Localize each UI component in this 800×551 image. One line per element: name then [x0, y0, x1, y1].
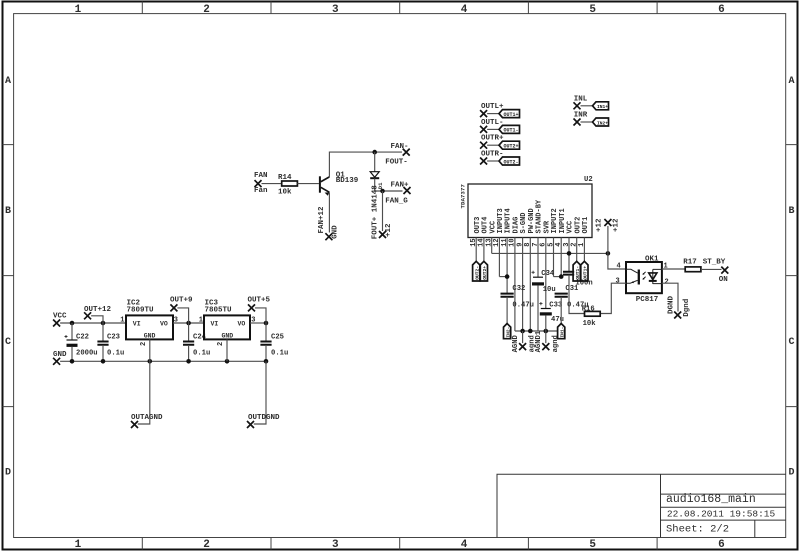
svg-text:IN1+: IN1+ — [597, 104, 608, 110]
svg-text:0.1u: 0.1u — [193, 350, 210, 358]
svg-text:AGND: AGND — [512, 334, 520, 352]
ground DGND X — [674, 312, 681, 319]
svg-text:4: 4 — [461, 539, 468, 551]
svg-text:6: 6 — [718, 4, 725, 16]
wire down to +12 — [382, 191, 384, 231]
svg-text:audio168_main: audio168_main — [666, 493, 756, 506]
junction S-GND — [520, 329, 525, 334]
svg-text:Sheet: 2/2: Sheet: 2/2 — [666, 524, 729, 536]
svg-text:14: 14 — [478, 238, 486, 246]
title block outline — [497, 474, 786, 537]
svg-text:OUT1: OUT1 — [582, 217, 590, 234]
row ticks right — [786, 145, 798, 407]
svg-text:OUT+9: OUT+9 — [170, 297, 193, 305]
svg-text:11: 11 — [501, 238, 509, 246]
svg-text:B: B — [788, 206, 794, 217]
svg-text:FOUT+ 1N4148: FOUT+ 1N4148 — [371, 185, 379, 240]
svg-text:PC817: PC817 — [636, 296, 659, 304]
wire pin5 jog to pin4 — [554, 276, 562, 278]
svg-text:TDA7377: TDA7377 — [460, 184, 467, 209]
junction C24 top — [186, 321, 191, 326]
wire OK1 pin2 to DGND — [662, 283, 678, 311]
wire C34 to ground rail — [537, 285, 539, 331]
svg-text:ST_BY: ST_BY — [703, 259, 726, 267]
svg-text:FAN-: FAN- — [391, 143, 409, 151]
flag OUT2+ — [499, 141, 520, 149]
ground rail wire — [60, 360, 266, 362]
svg-text:FAN+12: FAN+12 — [318, 206, 326, 234]
IC U2 TDA7377 body — [468, 184, 592, 238]
column ticks top — [142, 2, 657, 14]
wire pin12 jog to pin11 — [499, 276, 507, 278]
svg-text:0.1u: 0.1u — [271, 350, 288, 358]
wire FAN to R14 — [262, 183, 282, 185]
wire R14 to Q1 base — [297, 183, 319, 185]
svg-text:VCC: VCC — [53, 313, 67, 321]
svg-text:+12: +12 — [595, 218, 603, 232]
svg-text:OUTR-: OUTR- — [481, 150, 504, 158]
svg-text:C: C — [788, 337, 794, 348]
U2 pin numbers — [470, 238, 586, 246]
svg-text:ON: ON — [719, 276, 728, 284]
junction C33 ground — [544, 329, 549, 334]
svg-text:1: 1 — [199, 316, 203, 324]
flag OUT2- — [499, 157, 520, 165]
OK1 phototransistor — [638, 270, 640, 285]
column ticks bottom — [142, 538, 657, 550]
row labels right A-D — [788, 76, 794, 479]
svg-text:DGND: DGND — [668, 295, 676, 314]
+12 supply rail wire — [492, 252, 608, 254]
svg-text:AGND1: AGND1 — [535, 330, 543, 352]
svg-text:C25: C25 — [271, 334, 284, 342]
wire C31 to flag — [560, 297, 562, 324]
svg-text:1: 1 — [75, 4, 82, 16]
svg-text:OUT2+: OUT2+ — [503, 144, 518, 150]
svg-text:2: 2 — [665, 279, 669, 287]
svg-text:C33: C33 — [549, 302, 562, 310]
svg-text:OUT+5: OUT+5 — [248, 297, 271, 305]
wire VCC rail to IC2 — [60, 322, 126, 324]
junction pin3 VCC on +12 rail — [567, 251, 572, 256]
column labels top 1-6 — [75, 4, 725, 16]
svg-text:R17: R17 — [683, 259, 697, 267]
junction node at collector rail — [372, 150, 377, 155]
flag IN2- below C32 — [504, 324, 511, 339]
column labels bottom 1-6 — [75, 539, 725, 551]
wire C32 to flag — [506, 297, 508, 324]
junction C25 top — [264, 321, 269, 326]
svg-text:OUT1+: OUT1+ — [503, 112, 518, 118]
svg-text:FOUT-: FOUT- — [385, 158, 408, 166]
svg-text:+12: +12 — [385, 223, 393, 237]
svg-text:D: D — [5, 468, 11, 479]
svg-text:2: 2 — [203, 4, 210, 16]
junction +12 entry — [606, 251, 611, 256]
wire OUT+5 to rail — [255, 308, 266, 323]
junction C23 top — [101, 321, 106, 326]
svg-text:C22: C22 — [76, 334, 89, 342]
svg-text:2000u: 2000u — [76, 350, 98, 358]
svg-text:7: 7 — [532, 243, 540, 247]
svg-text:R16: R16 — [582, 306, 595, 314]
wire — [581, 105, 593, 107]
capacitor C30 100n — [563, 272, 574, 275]
svg-text:BD139: BD139 — [336, 177, 359, 185]
svg-text:A: A — [788, 76, 794, 87]
flag OUT1- — [499, 125, 520, 133]
flag IN1+ — [593, 102, 609, 110]
ground AGND X — [519, 343, 526, 350]
wire drop to AGND — [522, 331, 524, 343]
svg-text:Dgnd: Dgnd — [683, 299, 691, 317]
svg-text:10u: 10u — [543, 286, 556, 294]
wire Q1 collector up to node — [329, 152, 402, 177]
svg-text:INR: INR — [574, 112, 588, 120]
row ticks left — [3, 145, 14, 407]
svg-text:0.1u: 0.1u — [107, 350, 124, 358]
svg-text:OUT+12: OUT+12 — [84, 306, 112, 314]
wire IC2 GND down to OUTAGND — [138, 339, 150, 424]
U2 pin stub wires — [476, 238, 584, 332]
analog ground rail wire — [515, 330, 558, 332]
flag OUT1- at pin 2 — [573, 261, 580, 281]
ground AGND1 X — [542, 343, 549, 350]
svg-text:C32: C32 — [512, 285, 525, 293]
svg-text:Fan: Fan — [254, 187, 268, 195]
junction pin4/pin5 — [559, 274, 564, 279]
svg-text:GND: GND — [144, 332, 156, 339]
svg-text:10k: 10k — [583, 320, 597, 328]
junction dots on ground rail — [70, 359, 75, 364]
svg-text:VI: VI — [211, 321, 219, 328]
svg-text:STAND-BY: STAND-BY — [536, 199, 544, 233]
svg-text:5: 5 — [589, 4, 596, 16]
svg-text:C23: C23 — [107, 334, 120, 342]
svg-text:A: A — [5, 76, 11, 87]
junction C22 top — [70, 321, 75, 326]
flag OUT1+ — [499, 110, 520, 118]
wire C25 node down to OUTDGND — [254, 361, 266, 424]
wire drop to AGND1 — [545, 331, 547, 343]
wire +12 down to OK1 pin4 — [608, 226, 626, 269]
wire — [487, 128, 499, 130]
svg-text:FAN_G: FAN_G — [385, 198, 408, 206]
wire — [487, 160, 499, 162]
OK1 light arrows — [643, 272, 645, 279]
node +12 below diode — [379, 231, 386, 238]
wire OK1 pin3 to R16 — [600, 283, 626, 313]
row labels left A-D — [5, 76, 11, 479]
flag OUT2+ at pin 14 — [480, 261, 487, 281]
svg-text:U2: U2 — [584, 176, 593, 184]
svg-text:OUTDGND: OUTDGND — [248, 414, 280, 422]
svg-text:OUT1-: OUT1- — [503, 128, 518, 134]
svg-text:IN2+: IN2+ — [597, 120, 608, 126]
svg-text:INPUT1: INPUT1 — [559, 208, 567, 233]
wire — [487, 113, 499, 115]
svg-text:3: 3 — [332, 539, 339, 551]
svg-text:OUT2-: OUT2- — [503, 159, 518, 165]
wire Q1 emitter down to GND — [328, 193, 330, 233]
svg-text:OUTL-: OUTL- — [481, 119, 504, 127]
svg-text:VO: VO — [238, 321, 246, 328]
svg-text:10k: 10k — [278, 189, 292, 197]
svg-text:0.47u: 0.47u — [512, 302, 534, 310]
OK1 LED — [653, 269, 662, 284]
svg-text:4: 4 — [461, 4, 468, 16]
flag IN1- below C31 — [558, 324, 565, 339]
wire IC3 GND to rail — [226, 339, 228, 361]
svg-text:OUT4: OUT4 — [482, 217, 490, 234]
svg-text:FAN+: FAN+ — [391, 181, 410, 189]
svg-text:4: 4 — [555, 243, 563, 247]
svg-text:D: D — [788, 468, 794, 479]
U2 pin labels — [474, 199, 590, 233]
wire OK1 pin1 to R17 — [662, 268, 685, 270]
svg-text:2: 2 — [203, 539, 210, 551]
junction FAN+ node — [380, 189, 385, 194]
wire OUT+9 to rail — [177, 308, 188, 323]
wire C33 to ground rail — [545, 315, 547, 331]
svg-text:+12: +12 — [613, 218, 621, 232]
svg-text:5: 5 — [589, 539, 596, 551]
svg-text:GND: GND — [332, 225, 340, 239]
junction PW-GND — [528, 329, 533, 334]
svg-text:3: 3 — [616, 278, 620, 286]
wire — [487, 144, 499, 146]
svg-text:IN1-: IN1- — [559, 326, 565, 337]
svg-text:INPUT4: INPUT4 — [505, 208, 513, 233]
wire — [581, 121, 593, 123]
svg-text:INL: INL — [574, 96, 588, 104]
svg-text:OUT2+: OUT2+ — [482, 266, 488, 280]
svg-text:6: 6 — [718, 539, 725, 551]
svg-text:4: 4 — [617, 263, 621, 271]
flag OUT1+ at pin 1 — [581, 261, 588, 281]
diode D1 1N4148 — [374, 152, 376, 172]
svg-text:OUTL+: OUTL+ — [481, 103, 504, 111]
svg-text:agnd: agnd — [552, 335, 560, 352]
svg-text:1: 1 — [578, 243, 586, 247]
svg-text:22.08.2011 19:58:15: 22.08.2011 19:58:15 — [667, 509, 776, 520]
wire C30 to R16 — [569, 275, 585, 314]
svg-text:7805TU: 7805TU — [205, 307, 233, 315]
svg-text:IN2-: IN2- — [505, 326, 511, 337]
svg-text:1: 1 — [75, 539, 82, 551]
wire IC2 out to IC3 — [173, 322, 204, 324]
svg-text:GND: GND — [222, 332, 234, 339]
flag OUT2- at pin 15 — [473, 261, 480, 281]
wire IC3 out to C25 — [250, 322, 266, 324]
svg-text:OUT1+: OUT1+ — [583, 266, 589, 280]
junction pin11/pin12 — [505, 274, 510, 279]
svg-text:C34: C34 — [541, 270, 555, 278]
flag IN2+ — [593, 118, 609, 126]
svg-text:C: C — [5, 337, 11, 348]
wire OUT+12 to rail — [91, 316, 103, 323]
svg-text:OUTR+: OUTR+ — [481, 135, 504, 143]
wire R17 to ST_BY — [701, 268, 722, 270]
svg-text:VI: VI — [133, 321, 141, 328]
svg-text:B: B — [5, 206, 11, 217]
svg-text:2: 2 — [140, 342, 148, 346]
svg-text:VO: VO — [160, 321, 168, 328]
svg-text:47u: 47u — [551, 316, 564, 324]
svg-text:7809TU: 7809TU — [127, 307, 155, 315]
svg-text:1: 1 — [120, 317, 124, 325]
svg-text:OUTAGND: OUTAGND — [131, 414, 163, 422]
svg-text:FAN: FAN — [254, 172, 268, 180]
svg-text:2: 2 — [217, 342, 225, 346]
svg-text:3: 3 — [332, 4, 339, 16]
